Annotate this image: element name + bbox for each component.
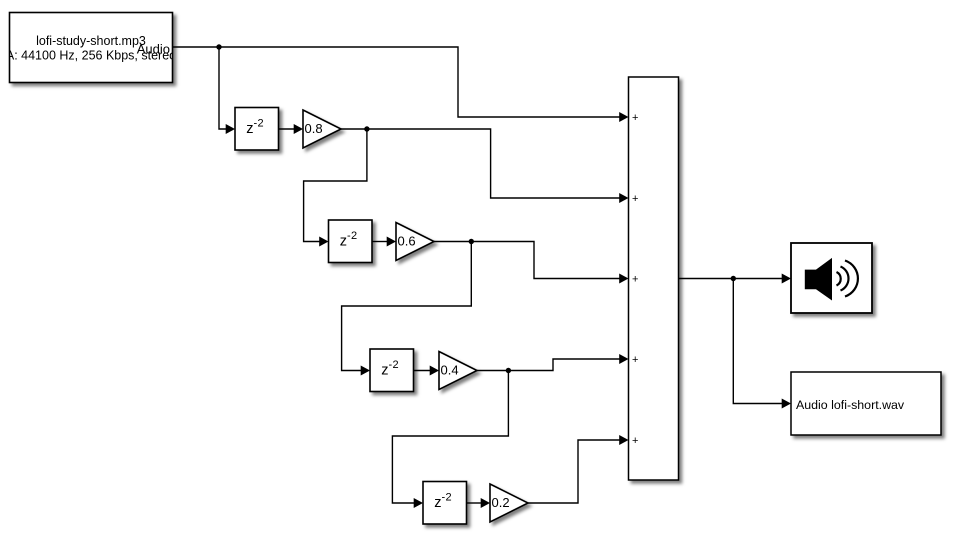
delay block Z2: z^-2: [329, 220, 373, 263]
svg-text:0.4: 0.4: [441, 363, 459, 378]
wire W2: branch down to delay Z1 input: [219, 47, 235, 134]
svg-text:0.2: 0.2: [492, 495, 510, 510]
svg-text:+: +: [632, 435, 638, 447]
svg-text:+: +: [632, 193, 638, 205]
wire W6: Z2 output to gain G2 input: [372, 237, 396, 247]
To File block: Audio lofi-short.wav: [791, 372, 941, 435]
svg-text:lofi-study-short.mp3: lofi-study-short.mp3: [36, 34, 146, 48]
delay block Z1: z^-2: [235, 108, 279, 151]
wire W14: sum output to speaker input: [679, 274, 792, 284]
wire W8: branch down to delay Z3 input: [342, 242, 472, 376]
sum block S1: 5-input adder: [629, 77, 679, 480]
wire W10: gain G3 output to sum input 4: [477, 354, 629, 371]
wire W5: branch down to delay Z2 input: [304, 129, 367, 247]
wire W7: gain G2 output to sum input 3: [434, 242, 629, 284]
wire W9: Z3 output to gain G3 input: [414, 366, 440, 376]
speaker icon: [805, 259, 831, 300]
gain G1: 0.8: [303, 110, 341, 148]
node J1: branch on source output: [216, 44, 221, 49]
svg-text:Audio: Audio: [137, 42, 170, 57]
svg-text:+: +: [632, 112, 638, 124]
wire W4: gain G1 output to sum input 2: [341, 129, 629, 203]
svg-text:+: +: [632, 273, 638, 285]
delay block Z3: z^-2: [370, 349, 414, 392]
node J3: branch on G2 output: [469, 239, 474, 244]
wire W3: Z1 output to gain G1 input: [279, 124, 304, 134]
node J2: branch on G1 output: [364, 126, 369, 131]
node J5: branch on sum output: [731, 276, 736, 281]
gain G3: 0.4: [439, 352, 477, 390]
delay block Z4: z^-2: [423, 482, 467, 525]
gain G2: 0.6: [396, 223, 434, 261]
wire W11: branch down to delay Z4 input: [392, 371, 508, 509]
svg-text:0.6: 0.6: [398, 234, 416, 249]
gain G4: 0.2: [490, 484, 528, 522]
svg-text:Audio lofi-short.wav: Audio lofi-short.wav: [796, 398, 905, 412]
svg-text:+: +: [632, 354, 638, 366]
source block U1: From Multimedia File "lofi-study-short.mp3": [6, 13, 176, 83]
wire W15: branch down to To-File block input: [733, 279, 791, 409]
svg-text:0.8: 0.8: [305, 121, 323, 136]
node J4: branch on G3 output: [506, 368, 511, 373]
wire W12: Z4 output to gain G4 input: [467, 498, 491, 508]
wire W13: gain G4 output to sum input 5: [528, 435, 629, 503]
speaker block: To Audio Device: [791, 243, 872, 313]
wire W1: source output to sum input 1: [173, 47, 629, 122]
